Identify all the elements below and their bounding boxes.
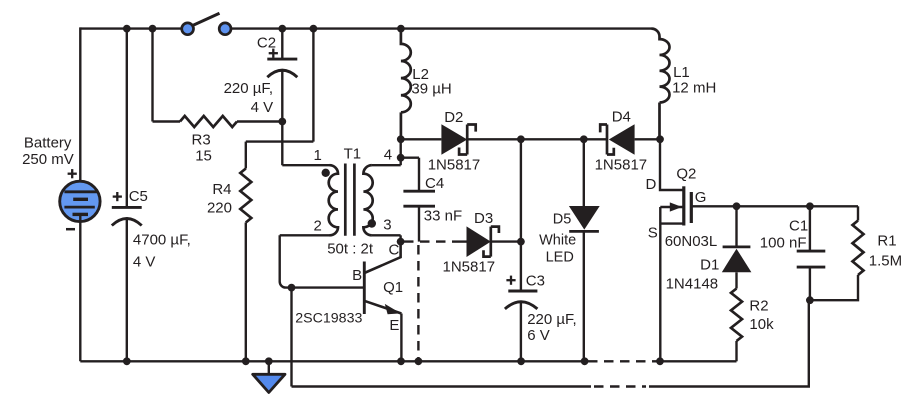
label Q2 bbox=[676, 165, 696, 182]
label Q2 D bbox=[646, 176, 657, 193]
label D3 part bbox=[443, 258, 496, 275]
wire top rail left of switch bbox=[80, 27, 182, 29]
svg-text:R4: R4 bbox=[212, 181, 231, 198]
svg-text:39 µH: 39 µH bbox=[411, 80, 451, 97]
transformer T1 core bbox=[345, 164, 354, 236]
node gate/C1 junction bbox=[806, 202, 814, 210]
node bottom-rail ground bbox=[265, 357, 273, 365]
wire D3 anode lead bbox=[452, 240, 467, 242]
wire drive node to D2 bbox=[401, 138, 442, 140]
svg-text:D1: D1 bbox=[700, 257, 719, 274]
node top-rail C5 tap bbox=[123, 25, 131, 33]
svg-text:R3: R3 bbox=[192, 132, 211, 149]
label T1 pin 3 bbox=[383, 217, 391, 234]
svg-text:3: 3 bbox=[383, 217, 391, 234]
svg-text:R2: R2 bbox=[749, 298, 768, 315]
node gate/D1 junction bbox=[733, 202, 741, 210]
wire C2 top lead bbox=[281, 29, 283, 59]
label Q1 part bbox=[295, 311, 362, 327]
label T1 bbox=[344, 146, 362, 163]
wire R4 top horizontal bbox=[246, 140, 314, 142]
inductor L1 bbox=[652, 29, 670, 140]
node bottom-rail D5 bbox=[581, 357, 589, 365]
svg-text:12 mH: 12 mH bbox=[672, 80, 716, 97]
switch S1 lever bbox=[192, 13, 220, 26]
wire R4 branch vertical bbox=[312, 29, 314, 142]
label C5 plus bbox=[113, 192, 122, 201]
node bottom-rail Q1 emitter bbox=[397, 357, 405, 365]
label L1 bbox=[672, 64, 716, 97]
svg-text:6 V: 6 V bbox=[527, 327, 550, 344]
wire C5 top lead bbox=[126, 29, 128, 208]
battery B1 body bbox=[60, 181, 100, 221]
svg-text:D3: D3 bbox=[474, 210, 493, 227]
node R3/C2 junction bbox=[278, 118, 286, 126]
node T1 pin1 phase dot bbox=[322, 169, 330, 177]
wire gate net bbox=[691, 205, 858, 207]
capacitor C3 plates bbox=[505, 291, 538, 309]
label Q2 part bbox=[665, 233, 718, 250]
transformer T1 primary winding bbox=[329, 165, 338, 235]
wire collector dashed link bbox=[404, 240, 452, 242]
wire C3 top lead bbox=[520, 242, 522, 291]
label C5 value bbox=[133, 232, 191, 271]
wire R1 top lead bbox=[857, 206, 859, 220]
svg-text:D4: D4 bbox=[612, 108, 631, 125]
label L2 bbox=[411, 66, 451, 97]
svg-text:S: S bbox=[648, 224, 658, 241]
svg-text:B: B bbox=[352, 267, 362, 284]
label C4 value bbox=[424, 208, 462, 225]
diode D1 1N4148 bbox=[722, 247, 752, 272]
svg-text:C3: C3 bbox=[526, 273, 545, 290]
label R2 bbox=[749, 298, 774, 334]
capacitor C1 plates bbox=[797, 251, 826, 267]
wire C2 bottom lead bbox=[281, 70, 283, 165]
label C5 bbox=[129, 188, 148, 205]
label Q1 C bbox=[389, 241, 400, 258]
wire top rail right of switch bbox=[231, 27, 652, 29]
node top-rail R4 branch tap bbox=[310, 25, 318, 33]
label C1 value bbox=[760, 235, 807, 252]
wire C4 top lead bbox=[401, 158, 419, 192]
wire T1 pin2 lead bbox=[280, 234, 330, 236]
wire bottom rail right segment bbox=[660, 360, 737, 362]
label Q1 bbox=[383, 279, 403, 296]
svg-text:50t : 2t: 50t : 2t bbox=[327, 241, 374, 258]
battery B1 cell plates bbox=[64, 192, 98, 215]
label C3 plus bbox=[506, 276, 515, 285]
node bottom-rail dashed-link bbox=[415, 357, 423, 365]
label R4 bbox=[207, 181, 232, 217]
label D2 bbox=[444, 109, 463, 126]
label T1 pin 2 bbox=[314, 218, 322, 235]
node bottom-rail C3 bbox=[517, 357, 525, 365]
svg-text:2SC19833: 2SC19833 bbox=[295, 311, 362, 327]
svg-text:Q1: Q1 bbox=[383, 279, 403, 296]
label C2 bbox=[257, 35, 276, 52]
wire Q2 source lead bbox=[659, 207, 661, 361]
wire D4 anode to L1 node bbox=[635, 138, 660, 140]
inductor L2 bbox=[401, 29, 411, 140]
svg-text:4700 µF,: 4700 µF, bbox=[133, 232, 191, 249]
wire R3 left lead bbox=[153, 120, 181, 122]
transistor Q1 emitter bbox=[364, 301, 401, 362]
label D5 White bbox=[539, 232, 576, 248]
label Q1 B bbox=[352, 267, 362, 284]
label C3 bbox=[526, 273, 545, 290]
capacitor C4 plates bbox=[403, 191, 435, 206]
transformer T1 secondary winding bbox=[363, 165, 372, 235]
label Q2 S bbox=[648, 224, 658, 241]
node T1 pin4 C4 tap bbox=[397, 154, 405, 162]
node D3/C3 junction bbox=[517, 238, 525, 246]
svg-text:220 µF,: 220 µF, bbox=[224, 80, 274, 97]
svg-text:Q2: Q2 bbox=[676, 165, 696, 182]
label Battery bbox=[24, 134, 72, 151]
transistor Q2 channel bar bbox=[682, 186, 685, 225]
transistor Q2 gate bar bbox=[690, 192, 693, 223]
wire R3 right lead bbox=[237, 120, 282, 122]
svg-text:1N4148: 1N4148 bbox=[666, 276, 719, 293]
svg-text:2: 2 bbox=[314, 218, 322, 235]
wire bottom rail solid bbox=[80, 360, 584, 362]
label Q2 G bbox=[695, 189, 707, 206]
svg-text:D2: D2 bbox=[444, 109, 463, 126]
label D3 bbox=[474, 210, 493, 227]
resistor R2 bbox=[731, 289, 742, 342]
node D5 top tap bbox=[580, 135, 588, 143]
node C1/R1 bottom junction bbox=[806, 296, 814, 304]
node bottom-rail C5 bbox=[123, 357, 131, 365]
node bottom-rail R4 bbox=[242, 357, 250, 365]
node L1/D4/Q2 drain junction bbox=[656, 135, 664, 143]
node L2/T1pin4 junction bbox=[397, 135, 405, 143]
label T1 pin 1 bbox=[314, 147, 322, 164]
wire R1 bottom lead bbox=[810, 275, 858, 300]
label battery minus bbox=[66, 228, 75, 231]
wire boost node vertical bbox=[520, 139, 522, 241]
svg-text:60N03L: 60N03L bbox=[665, 233, 718, 250]
wire D3 cathode lead bbox=[491, 240, 521, 242]
resistor R3 bbox=[180, 116, 237, 127]
capacitor C5 plates bbox=[112, 207, 142, 225]
svg-text:100 nF: 100 nF bbox=[760, 235, 807, 252]
label D1 bbox=[700, 257, 719, 274]
svg-text:C1: C1 bbox=[789, 217, 808, 234]
svg-text:10k: 10k bbox=[749, 316, 774, 333]
svg-text:1N5817: 1N5817 bbox=[595, 156, 648, 173]
svg-text:L1: L1 bbox=[673, 64, 690, 81]
node boost output / C3 top tap bbox=[517, 135, 525, 143]
label 250 mV bbox=[22, 151, 74, 168]
diode D4 1N5817 bbox=[600, 124, 634, 155]
transistor Q1 base bar bbox=[363, 262, 366, 315]
node Q1 collector junction bbox=[397, 238, 405, 246]
svg-text:1N5817: 1N5817 bbox=[428, 156, 481, 173]
wire Q1 base net bbox=[280, 235, 365, 287]
wire T1 pin3 lead bbox=[372, 235, 401, 241]
wire D2 cathode to D5 node bbox=[467, 138, 584, 140]
svg-text:33 nF: 33 nF bbox=[424, 208, 462, 225]
wire Q2 drain lead bbox=[660, 139, 684, 190]
svg-text:1N5817: 1N5817 bbox=[443, 258, 496, 275]
label battery plus bbox=[68, 169, 77, 178]
label C2 value bbox=[224, 80, 274, 116]
switch S1 left contact bbox=[182, 23, 194, 35]
label D2 part bbox=[428, 156, 481, 173]
diode D5 white LED bbox=[569, 206, 600, 231]
svg-text:T1: T1 bbox=[344, 146, 362, 163]
wire dashed vertical to bottom rail bbox=[417, 245, 419, 358]
wire R3 branch vertical bbox=[151, 29, 153, 122]
ground symbol bbox=[253, 361, 285, 392]
label T1 turns ratio bbox=[327, 241, 374, 258]
wire C5 bottom lead bbox=[126, 219, 128, 362]
node T1 pin3 phase dot bbox=[368, 219, 376, 227]
label R1 bbox=[869, 233, 902, 270]
svg-text:220: 220 bbox=[207, 199, 232, 216]
wire T1 pin1 lead bbox=[282, 164, 329, 166]
wire C3 bottom lead bbox=[520, 302, 522, 361]
node top-rail R3 branch tap bbox=[149, 25, 157, 33]
label C2 plus bbox=[269, 49, 278, 58]
transistor Q1 collector bbox=[364, 242, 400, 273]
label R3 bbox=[192, 132, 212, 165]
svg-text:C5: C5 bbox=[129, 188, 148, 205]
svg-text:Battery: Battery bbox=[24, 134, 72, 151]
label C4 bbox=[425, 175, 444, 192]
wire R4 upper lead bbox=[245, 142, 247, 169]
svg-text:C: C bbox=[389, 241, 400, 258]
switch S1 right contact bbox=[219, 23, 231, 35]
label C1 bbox=[789, 217, 808, 234]
svg-text:G: G bbox=[695, 189, 707, 206]
svg-text:D5: D5 bbox=[553, 212, 572, 228]
wire D5 top lead bbox=[583, 139, 585, 206]
label Q1 E bbox=[389, 317, 399, 334]
label D5 LED bbox=[546, 249, 574, 265]
wire D1 top lead bbox=[735, 206, 737, 247]
label D4 bbox=[612, 108, 631, 125]
wire D1 to R2 bbox=[735, 272, 737, 288]
svg-text:4 V: 4 V bbox=[133, 253, 156, 270]
svg-text:250 mV: 250 mV bbox=[22, 151, 74, 168]
svg-text:R1: R1 bbox=[877, 233, 896, 250]
resistor R4 bbox=[240, 169, 251, 223]
svg-text:1: 1 bbox=[314, 147, 322, 164]
wire battery bottom lead bbox=[79, 214, 81, 361]
wire R4 lower lead bbox=[245, 223, 247, 362]
svg-text:220 µF,: 220 µF, bbox=[527, 311, 577, 328]
wire C1 top lead bbox=[809, 206, 811, 251]
wire D5 bottom lead bbox=[583, 231, 585, 361]
svg-text:4: 4 bbox=[384, 146, 392, 163]
node top-rail C2 tap bbox=[278, 25, 286, 33]
transistor Q2 body arrow bbox=[660, 202, 684, 211]
wire C1 bottom lead bbox=[809, 267, 811, 300]
label D4 part bbox=[595, 156, 648, 173]
wire battery top lead bbox=[79, 27, 81, 191]
wire C4 bottom lead bbox=[418, 206, 420, 241]
label C3 value bbox=[527, 311, 577, 344]
svg-text:4 V: 4 V bbox=[251, 99, 274, 116]
label D1 part bbox=[666, 276, 719, 293]
label D5 bbox=[553, 212, 572, 228]
wire D5 node to D4 bbox=[584, 138, 607, 140]
wire T1 pin4 lead bbox=[372, 139, 401, 165]
capacitor C2 plates bbox=[267, 59, 297, 77]
wire feedback lower rail dashed bbox=[594, 385, 646, 387]
diode D3 1N5817 bbox=[467, 226, 499, 257]
svg-text:E: E bbox=[389, 317, 399, 334]
diode D2 1N5817 bbox=[441, 124, 475, 155]
wire R2 bottom lead bbox=[735, 341, 737, 361]
svg-text:D: D bbox=[646, 176, 657, 193]
svg-text:15: 15 bbox=[195, 147, 212, 164]
node top-rail L2 tap bbox=[397, 25, 405, 33]
resistor R1 bbox=[853, 221, 864, 276]
wire feedback vertical bbox=[290, 288, 292, 387]
transistor Q2 source stub bbox=[660, 222, 684, 224]
wire bottom rail dashed segment bbox=[588, 360, 657, 362]
label T1 pin 4 bbox=[384, 146, 392, 163]
wire feedback lower rail solid left bbox=[292, 385, 592, 387]
wire feedback lower rail solid right bbox=[649, 300, 809, 386]
svg-text:LED: LED bbox=[546, 249, 574, 265]
node base/feedback junction bbox=[288, 284, 296, 292]
svg-text:C4: C4 bbox=[425, 175, 444, 192]
node bottom-rail Q2 source bbox=[656, 357, 664, 365]
svg-text:White: White bbox=[539, 232, 576, 248]
svg-text:1.5M: 1.5M bbox=[869, 253, 902, 270]
